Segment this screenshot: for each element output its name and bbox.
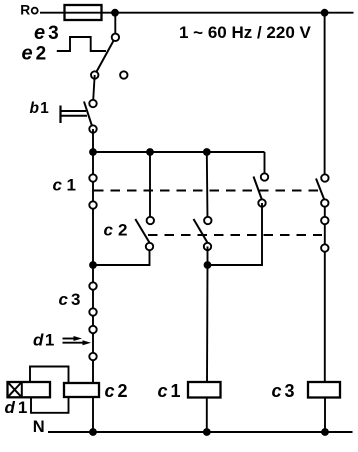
contact d1 actuator arrows (63, 338, 76, 340)
node E (mid bus junction at second c2 branch) (203, 148, 211, 156)
mechanical linkage c1 (dashed) (94, 190, 319, 192)
relay d1 divider (21, 382, 23, 397)
node A (fuse output junction) (111, 9, 119, 17)
wire relay d1 top to coil c2 left (30, 367, 69, 384)
pushbutton b1 actuator bar (59, 106, 61, 124)
switch e2/e3 blade (closed to left contact) (95, 37, 116, 75)
pushbutton b1 blade (open) (84, 102, 93, 130)
N bus wire (48, 431, 353, 433)
contact c2 far right (closed) terminals (321, 217, 328, 224)
pushbutton b1 lower terminal (89, 125, 96, 132)
node G (junction above coil c1) (204, 261, 212, 269)
node F (lower-left junction) (89, 261, 97, 269)
switch e lower-right open terminal (120, 71, 127, 78)
wire from terminal R through fuse to node A (40, 12, 115, 14)
coil c2 (64, 383, 99, 397)
wire coil c1 to N bus (206, 398, 208, 433)
switch e lower-left terminal (91, 71, 98, 78)
wire node G down to coil c1 (206, 265, 209, 382)
contact c2 mid blade (open) (135, 219, 149, 243)
relay d1 body (8, 382, 51, 397)
contact c2 mid terminals (147, 217, 154, 224)
mid bus wire (93, 151, 265, 153)
wire contact c1 right down and left to node G (208, 203, 263, 265)
wire b1 to node C (92, 129, 94, 152)
left rail wire through contacts c1,c3,d1 (92, 152, 94, 383)
node D (mid bus junction at c2 branch) (146, 148, 154, 156)
svg-text:N: N (33, 418, 45, 436)
coil c1 (188, 382, 221, 398)
contact c1 far right blade (open) (316, 179, 325, 201)
right rail wire through closed c2 contact down to coil c3 (324, 203, 326, 382)
top bus wire (115, 12, 354, 14)
switch e upper terminal (112, 34, 119, 41)
node H (N bus at coil c2) (89, 428, 97, 436)
wire mid bus to contact c2 mid (149, 152, 151, 220)
svg-text:R: R (20, 2, 30, 17)
wire node A down to switch e (114, 13, 116, 35)
wire mid bus to contact c2 right (206, 152, 209, 220)
pushbutton b1 upper terminal (89, 100, 96, 107)
contact c3 terminals (closed, on left rail) (89, 282, 96, 289)
mechanical linkage c2 (dashed) (148, 234, 322, 236)
node J (N bus at coil c3) (321, 428, 329, 436)
node I (N bus at coil c1) (203, 428, 211, 436)
fuse e1 (65, 5, 102, 20)
wire node F to contact c2 mid (93, 247, 150, 266)
wire node B down to contact c1 far right (324, 13, 326, 178)
node C (mid bus left junction) (89, 148, 97, 156)
contact c1 left (closed) terminals (89, 174, 96, 181)
node B (right branch tap junction) (321, 9, 329, 17)
wire mid bus end down to contact c1 right (264, 152, 266, 177)
contact c1 right terminals (261, 173, 268, 180)
contact c1 right blade (open) (254, 177, 263, 201)
svg-text:b1: b1 (30, 100, 50, 117)
relay d1 X mark (9, 383, 21, 396)
wire coil c2 to N bus (92, 397, 94, 432)
wire relay d1 bottom to coil c2 left (31, 397, 69, 413)
contact c2 right blade (open) (194, 219, 208, 243)
wire contact c2 right to node G (207, 247, 209, 266)
switch e2/e3 manual actuator link (57, 37, 106, 51)
wire coil c3 to N bus (324, 398, 326, 433)
contact d1 terminals (closed, on left rail) (89, 326, 96, 333)
terminal R circle (32, 8, 38, 14)
coil c3 (308, 382, 340, 398)
svg-text:1 ~ 60 Hz / 220 V: 1 ~ 60 Hz / 220 V (179, 23, 311, 42)
contact c2 right terminals (204, 217, 211, 224)
contact c1 far right terminals (321, 174, 328, 181)
wire switch e to pushbutton b1 (93, 75, 95, 104)
